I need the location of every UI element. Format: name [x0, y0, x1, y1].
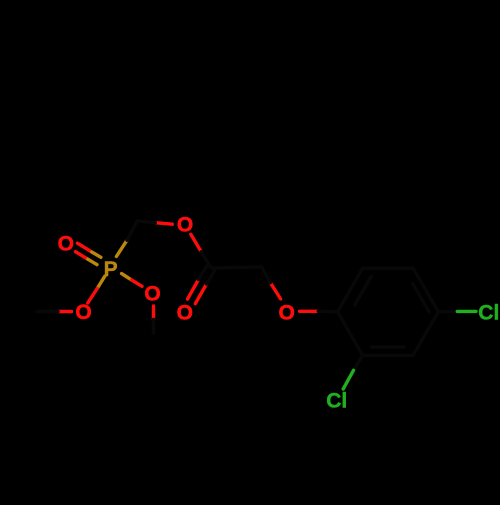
bond O6-ring red stub — [300, 310, 319, 313]
bond P-O4 gold half — [122, 274, 132, 280]
bond P=O1 double bond gold halves — [88, 252, 101, 265]
svg-text:O: O — [177, 214, 193, 237]
bond P-O4 red half — [132, 280, 142, 286]
svg-text:O: O — [177, 302, 193, 325]
bond O3-methyl red stub — [58, 310, 72, 313]
bond C2-Cl bottom carbon half — [354, 355, 363, 370]
bond C4-Cl right green half — [457, 310, 476, 313]
bond P-CH2a carbon half — [127, 221, 137, 240]
bond O4-methyl red stub — [152, 306, 155, 320]
svg-text:O: O — [144, 283, 160, 306]
svg-text:O: O — [279, 301, 295, 324]
bond CH2b-O6 red half — [270, 283, 280, 299]
bond O2-Ccarbonyl carbon half — [201, 252, 211, 268]
bond CH2a-O2 carbon half — [137, 221, 155, 223]
bond C=O5 double bond red halves — [188, 280, 207, 304]
bond P=O1 double bond red halves — [76, 243, 92, 259]
bond C2-Cl bottom green half — [343, 370, 353, 389]
benzene ring — [338, 268, 439, 355]
bond C4-Cl right carbon half — [438, 310, 457, 314]
svg-text:P: P — [104, 258, 118, 281]
bond O3-methyl carbon part — [37, 310, 58, 313]
bond O6-ring carbon half — [318, 310, 337, 314]
bond C=O5 double bond carbon halves — [199, 266, 215, 284]
svg-text:Cl: Cl — [478, 301, 499, 324]
bond P-O3 gold half — [97, 276, 105, 288]
bond P-CH2a gold half — [116, 240, 127, 256]
bond CH2a-O2 red half — [155, 223, 172, 225]
bond P-O3 red half — [88, 289, 97, 303]
bond CH2b-O6 carbon half — [262, 267, 271, 283]
svg-text:O: O — [75, 301, 91, 324]
bond Ccarbonyl-CH2b — [211, 267, 262, 268]
svg-text:Cl: Cl — [326, 389, 347, 412]
bond O2-Ccarbonyl red half — [191, 234, 201, 252]
bond O4-methyl carbon part — [152, 319, 155, 333]
svg-text:O: O — [58, 232, 74, 255]
